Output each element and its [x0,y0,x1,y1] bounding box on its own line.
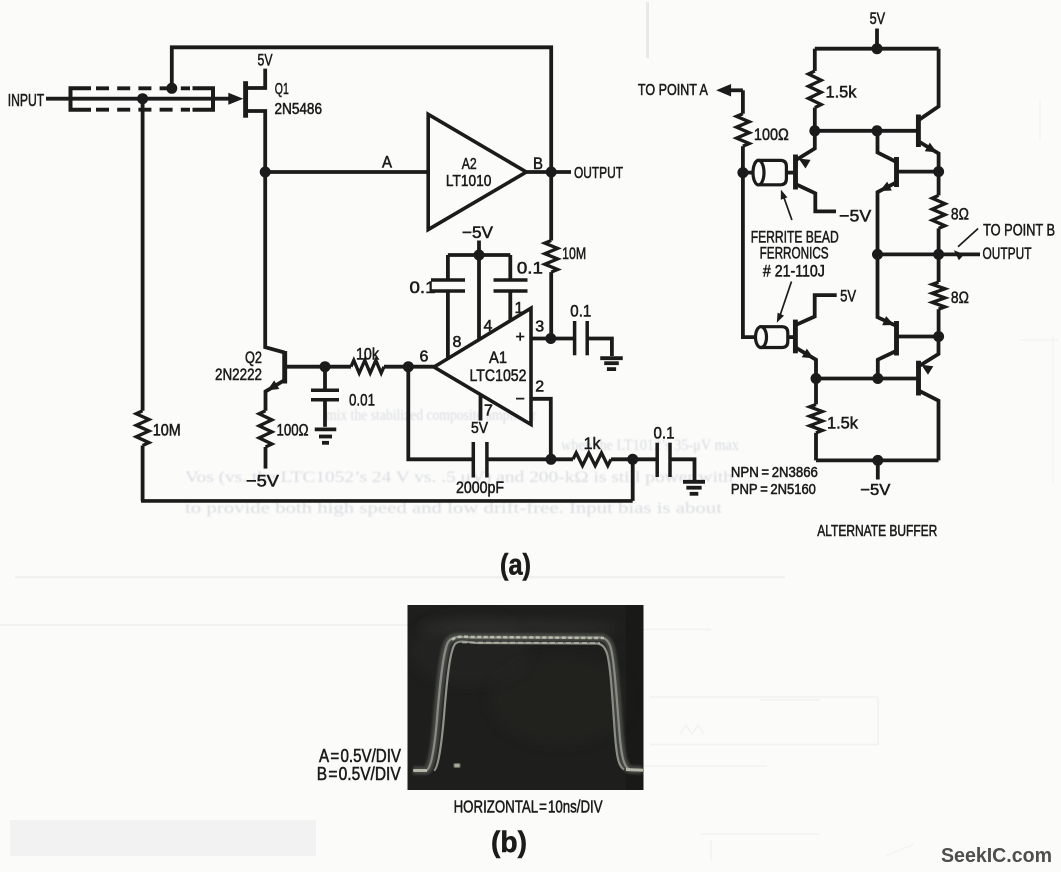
transistor NPN lower ferrite-bead stage [796,295,836,325]
wire buffer top rail [815,47,939,51]
ferrite bead 1 [759,160,787,184]
svg-text:4: 4 [484,318,493,335]
node 5V rail junction [872,43,883,54]
wire A1 out to 2000pF [408,367,473,460]
shield bottom dashed line [96,108,190,112]
wire buffer bottom rail [816,458,939,462]
wire 10M to bottom rail [141,446,145,501]
svg-text:1: 1 [515,300,524,317]
wire Q5 base [898,335,939,339]
wire into bead 1 [743,171,757,175]
op-amp A1 LTC1052 [434,308,531,424]
svg-text:1.5k: 1.5k [826,83,857,102]
resistor 10k [325,365,351,369]
node Q2 base junction [320,361,331,372]
node shield-feedback junction [166,83,177,94]
svg-text:OUTPUT: OUTPUT [983,245,1032,263]
shield right bracket [193,88,214,109]
svg-text:10M: 10M [153,421,181,440]
svg-text:0.1: 0.1 [517,259,543,278]
svg-text:SeekIC.com: SeekIC.com [941,845,1052,867]
wire bead 1 to base [786,171,793,175]
scope trace A [413,637,642,771]
wire A2 output [526,170,571,174]
node base line left junction [811,373,822,384]
wire input lead [46,97,234,101]
svg-text:5V: 5V [840,286,857,305]
svg-text:A = 0.5V/DIV: A = 0.5V/DIV [319,746,401,766]
svg-text:1.5k: 1.5k [827,414,858,433]
svg-text:2000pF: 2000pF [456,478,504,497]
node pin 3 junction [545,333,556,344]
svg-text:0.01: 0.01 [349,391,375,410]
capacitor 0.01 [323,367,327,389]
resistor 100ohm (buffer) [737,114,750,147]
wire pin 2 stub [531,399,551,460]
svg-text:A1: A1 [489,348,507,367]
svg-text:10M: 10M [562,244,586,263]
transistor PNP upper ferrite-bead stage [797,131,815,160]
svg-text:A: A [382,152,393,171]
wire -5V rail [448,253,510,257]
node base line mid junction [872,373,883,384]
node output rail left junction [872,249,883,260]
svg-text:−5V: −5V [246,472,280,491]
transistor Q5 PNP (middle lower) [878,254,897,325]
ferrite bead 2 [761,327,788,348]
shield top dashed line [96,86,190,90]
node Q3 emitter junction [933,166,944,177]
node -5V junction [474,250,485,261]
scope speck [454,764,460,768]
resistor 1k [573,453,611,466]
wire point A drop [741,90,745,113]
svg-text:TO POINT B: TO POINT B [983,222,1055,240]
svg-text:HORIZONTAL = 10ns/DIV: HORIZONTAL = 10ns/DIV [454,797,603,817]
node A1 output junction [403,361,414,372]
svg-text:(a): (a) [500,549,531,582]
svg-text:10k: 10k [356,345,379,364]
svg-text:(b): (b) [491,826,527,859]
node A junction [260,167,271,178]
capacitor 2000pF [472,442,476,478]
resistor 8ohm (top) [937,172,941,196]
wire Q2 base [286,365,325,369]
ground (pin 3 cap) [600,356,623,360]
svg-text:+: + [516,329,525,346]
transistor Q6 PNP (bottom right) [920,337,939,366]
svg-text:1k: 1k [584,434,601,453]
svg-text:NPN = 2N3866: NPN = 2N3866 [731,464,818,481]
svg-text:−5V: −5V [462,223,494,242]
node bias mid junction [872,125,883,136]
op-amp A2 LT1010 [428,114,526,229]
wire output to 10M [549,172,553,241]
resistor 1.5k (bottom) [814,379,818,405]
wire bead 2 to base [788,335,794,339]
pointer arrow to output [958,229,978,247]
node output junction [546,167,557,178]
transistor Q2 2N2222 [265,172,285,353]
svg-text:LTC1052: LTC1052 [470,366,527,385]
ground (0.01 cap) [315,427,337,431]
svg-text:INPUT: INPUT [8,90,45,110]
svg-text:TO POINT A: TO POINT A [638,82,709,99]
resistor 100ohm (Q2 emitter) [259,411,272,447]
svg-text:−5V: −5V [839,206,872,225]
node pin2 feedback junction [546,454,557,465]
svg-text:2: 2 [535,379,544,396]
node bead junction [737,167,748,178]
node Q5 base junction [933,331,944,342]
capacitor 0.1 (output) [633,457,658,461]
wire A1 output to junction [408,365,435,369]
wire pin4 lead [477,255,481,340]
svg-text:−: − [516,391,525,408]
wire pin 7 lead [479,395,483,421]
node bias left junction [809,125,820,136]
svg-text:0.1: 0.1 [654,423,675,442]
wire Q6 base line [816,377,919,381]
svg-text:B = 0.5V/DIV: B = 0.5V/DIV [317,764,401,784]
svg-text:PNP = 2N5160: PNP = 2N5160 [731,481,816,498]
svg-text:3: 3 [535,319,544,336]
scope top speckle band [452,637,604,640]
wire buffer output rail [878,252,981,256]
wire to point A with arrow [729,88,743,92]
scope baseline stubs [414,769,428,772]
capacitor 0.1 (pin 3) [551,337,574,341]
svg-text:100Ω: 100Ω [277,421,309,440]
transistor Q4 NPN (middle) [878,131,897,162]
svg-text:0.1: 0.1 [570,301,591,320]
ground (output cap) [683,480,705,484]
svg-text:7: 7 [484,403,493,420]
wire 100ohm to -5V [264,447,268,469]
wire Q4 base line [898,170,939,174]
transistor Q3 NPN (top right) [920,49,939,120]
wire -5V lead [477,241,481,256]
node -5V junction (buffer) [872,455,883,466]
svg-text:5V: 5V [870,9,886,28]
svg-text:6: 6 [420,349,429,366]
wire 1k node to bottom rail [631,459,635,501]
svg-text:Q1: Q1 [275,81,289,98]
svg-text:8Ω: 8Ω [951,288,969,307]
pointer arrow to bead 1 [783,194,792,221]
scope trace B [434,642,624,771]
wire -5V stub (buffer) [876,460,880,479]
svg-text:ALTERNATE BUFFER: ALTERNATE BUFFER [817,523,937,540]
svg-text:5V: 5V [471,420,488,437]
node output rail right junction [933,249,944,260]
wire bead node down leg [743,173,757,338]
wire bottom rail [141,499,633,503]
svg-text:−5V: −5V [860,482,890,499]
wire 10M to pin3 node [549,272,553,338]
wire pin 3 stub [531,337,551,341]
svg-text:A2: A2 [462,156,477,173]
wire 5V lead (buffer) [875,29,879,49]
svg-text:2N5486: 2N5486 [275,101,323,118]
svg-text:OUTPUT: OUTPUT [574,165,623,182]
node 1k output junction [627,454,638,465]
transistor Q1 gate arrow [228,93,243,105]
resistor 10M (input) [136,411,149,446]
scope photo [408,605,644,790]
resistor 10M (feedback) [545,241,558,273]
wire 1.5k to node [813,108,817,131]
node input junction [137,93,148,104]
capacitor 0.1 (pin 8 bypass) [446,255,450,280]
wire rail left drop [813,49,817,71]
svg-text:8Ω: 8Ω [951,204,969,223]
transistor Q1 2N5486 [243,81,248,118]
wire node A to A2 [265,170,428,174]
wire top feedback rail [172,47,551,172]
svg-text:LT1010: LT1010 [446,173,492,190]
wire input-to-ground leg [141,99,145,411]
capacitor 0.1 (pin 1 bypass) [508,255,512,280]
svg-text:2N2222: 2N2222 [215,365,262,384]
wire 100ohm to bead node [741,146,745,172]
resistor 8ohm (bottom) [937,254,941,282]
svg-text:# 21-110J: # 21-110J [763,263,825,281]
wire bias node line [815,129,919,133]
scope trace glow [413,637,642,771]
shield left bracket [71,88,92,109]
svg-text:FERRONICS: FERRONICS [760,245,829,263]
pointer arrow to bead 2 [780,282,792,318]
svg-text:0.1: 0.1 [410,278,436,297]
svg-text:5V: 5V [258,51,273,70]
resistor 1.5k (top) [808,71,821,108]
svg-text:8: 8 [453,334,462,351]
svg-text:100Ω: 100Ω [754,125,789,144]
